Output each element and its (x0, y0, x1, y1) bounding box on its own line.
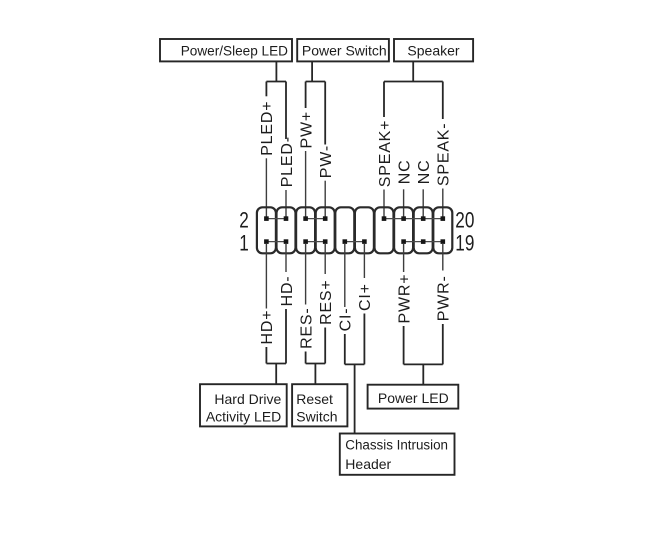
label PLED- (279, 136, 296, 187)
svg-text:HD-: HD- (279, 276, 296, 307)
wire stub to Hard Drive Activity LED box (275, 364, 277, 385)
wire SPEAK- upper segment (442, 82, 444, 120)
label HD- (279, 276, 296, 307)
label NC (416, 159, 433, 184)
wire PLED+ upper segment (265, 82, 267, 97)
svg-text:Activity LED: Activity LED (206, 409, 281, 425)
box Speaker (394, 39, 473, 61)
pin number 1 (239, 231, 249, 256)
pin connect line row1 pins RES-/RES+ (306, 241, 326, 243)
bracket Power/Sleep LED (266, 81, 286, 83)
bracket Power LED (404, 363, 443, 365)
label PWR+ (396, 274, 413, 324)
svg-text:PWR+: PWR+ (396, 274, 413, 324)
wire HD- upper segment (285, 243, 287, 272)
wire CI- lower segment (344, 334, 346, 364)
svg-text:PW+: PW+ (298, 111, 315, 149)
wire stub to Chassis Intrusion Header box (354, 364, 356, 433)
pin squares row 1 (pins 1..19) (264, 239, 445, 244)
pin connect line row1 pins PWR+..PWR- (404, 241, 443, 243)
pin number 20 (455, 209, 474, 234)
wire PW+ upper segment (305, 82, 307, 109)
svg-text:NC: NC (396, 159, 413, 184)
wire SPEAK+ upper segment (383, 82, 385, 118)
label PW- (318, 145, 335, 178)
bracket Reset Switch (306, 363, 326, 365)
svg-text:HD+: HD+ (259, 310, 276, 345)
svg-text:Reset: Reset (296, 391, 333, 407)
svg-text:Power Switch: Power Switch (302, 42, 387, 58)
svg-text:Speaker: Speaker (407, 42, 459, 58)
wire CI- upper segment (344, 243, 346, 307)
wire HD- lower segment (285, 309, 287, 364)
wire PLED- lower segment (285, 190, 287, 217)
svg-text:PW-: PW- (318, 145, 335, 178)
box Power Switch (297, 39, 389, 61)
svg-text:RES-: RES- (298, 307, 315, 348)
pin connect line row1 pins HD+/HD- (266, 241, 286, 243)
wire SPEAK+ lower segment (383, 190, 385, 218)
svg-text:Hard Drive: Hard Drive (214, 391, 281, 407)
label PWR- (436, 275, 453, 321)
svg-text:SPEAK+: SPEAK+ (377, 120, 394, 188)
wire PWR+ lower segment (403, 326, 405, 364)
wire PWR- lower segment (442, 324, 444, 364)
box Power/Sleep LED (160, 39, 292, 61)
box Chassis Intrusion Header (340, 434, 455, 475)
wire stub from Power Switch box (311, 61, 313, 81)
pin number 19 (455, 231, 474, 256)
svg-text:19: 19 (455, 231, 474, 256)
box Reset Switch (292, 384, 347, 426)
svg-text:Chassis Intrusion: Chassis Intrusion (345, 438, 448, 453)
wire PWR+ upper segment (403, 243, 405, 272)
wire RES- lower segment (305, 352, 307, 364)
wire PW+ lower segment (305, 151, 307, 217)
label RES- (298, 307, 315, 348)
label PLED+ (259, 101, 276, 156)
svg-text:Header: Header (345, 456, 391, 472)
label PW+ (298, 111, 315, 149)
wire RES+ upper segment (324, 243, 326, 274)
bracket Speaker (384, 81, 443, 83)
wire stub to Power LED box (422, 364, 424, 384)
svg-text:PLED+: PLED+ (259, 101, 276, 156)
pin connect line row2 pins PW+/PW- (306, 218, 326, 220)
svg-text:NC: NC (416, 159, 433, 184)
wire stub from Power/Sleep LED box (275, 61, 277, 81)
pin connect line row1 pins CI-/CI+ (345, 241, 365, 243)
wire HD+ lower segment (265, 347, 267, 364)
svg-text:CI-: CI- (338, 308, 355, 332)
wire PLED+ lower segment (265, 158, 267, 217)
box Power LED (368, 385, 459, 409)
wire CI+ lower segment (363, 314, 365, 365)
wire NC lower segment (422, 189, 424, 217)
svg-text:PLED-: PLED- (279, 136, 296, 187)
wire RES+ lower segment (324, 328, 326, 364)
label SPEAK+ (377, 120, 394, 188)
wire RES- upper segment (305, 243, 307, 304)
bracket Chassis Intrusion Header (345, 363, 365, 365)
bracket Power Switch (306, 81, 326, 83)
pin connect line row2 pins PLED+/PLED- (266, 218, 286, 220)
wire PW- upper segment (324, 82, 326, 145)
box Hard Drive Activity LED (200, 384, 287, 426)
svg-text:RES+: RES+ (318, 279, 335, 324)
pin connect line row2 pins SPEAK+..SPEAK- (384, 218, 443, 220)
pin squares row 2 (pins 2..20) (264, 216, 445, 221)
svg-text:SPEAK-: SPEAK- (436, 123, 453, 187)
wire HD+ upper segment (265, 243, 267, 308)
label RES+ (318, 279, 335, 324)
wire PW- lower segment (324, 181, 326, 217)
label HD+ (259, 310, 276, 345)
label CI+ (357, 283, 374, 311)
svg-text:1: 1 (239, 231, 249, 256)
svg-text:PWR-: PWR- (436, 275, 453, 321)
wire stub from Speaker box (412, 61, 414, 81)
label NC (396, 159, 413, 184)
connector F_PANEL header: 10 cells (257, 207, 452, 253)
wire PWR- upper segment (442, 243, 444, 270)
wire PLED- upper segment (285, 82, 287, 140)
bracket Hard Drive Activity LED (266, 363, 286, 365)
wire CI+ upper segment (363, 243, 365, 278)
svg-text:Power/Sleep LED: Power/Sleep LED (181, 43, 288, 58)
label SPEAK- (436, 123, 453, 187)
svg-text:2: 2 (239, 209, 249, 234)
svg-text:Power LED: Power LED (378, 390, 449, 406)
wire stub to Reset Switch box (314, 364, 316, 385)
svg-text:CI+: CI+ (357, 283, 374, 311)
svg-text:20: 20 (455, 209, 474, 234)
svg-text:Switch: Switch (296, 409, 337, 425)
wire NC lower segment (403, 189, 405, 217)
wire SPEAK- lower segment (442, 189, 444, 218)
label CI- (338, 308, 355, 332)
pin number 2 (239, 209, 249, 234)
